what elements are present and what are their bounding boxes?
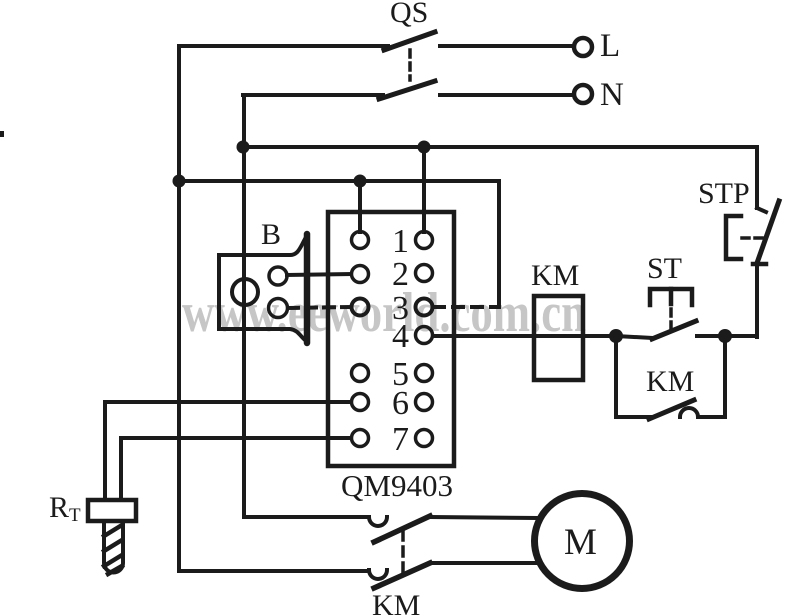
svg-text:QS: QS bbox=[390, 0, 428, 29]
pin 6 bbox=[352, 385, 433, 422]
pin 5 bbox=[352, 356, 433, 393]
contact KM auxiliary blade bbox=[649, 400, 694, 419]
node junction at 243,147 bbox=[237, 141, 250, 154]
wire pin 4 to node 616 through coil bbox=[433, 334, 616, 338]
transducer B horn bell bbox=[304, 234, 311, 343]
pushbutton STP blade bbox=[757, 201, 779, 263]
svg-text:7: 7 bbox=[392, 421, 409, 458]
svg-text:QM9403: QM9403 bbox=[341, 468, 453, 503]
svg-text:N: N bbox=[600, 77, 624, 113]
contact KM main upper fixed hook bbox=[369, 517, 387, 526]
wire pin 6 to thermistor bbox=[105, 402, 351, 500]
svg-text:KM: KM bbox=[372, 589, 420, 616]
wire N-phase from rail x243 to QS bbox=[243, 93, 383, 97]
pin 2 bbox=[352, 256, 433, 293]
contact KM auxiliary bridge arc bbox=[680, 408, 698, 417]
wire KM aux right side up to node725 bbox=[698, 336, 725, 417]
wire bus y181 from left rail to corner x499 bbox=[179, 181, 499, 305]
transducer B terminal circle lower bbox=[269, 299, 288, 318]
svg-text:2: 2 bbox=[392, 256, 409, 293]
pushbutton ST actuator bracket bbox=[650, 289, 692, 305]
pushbutton STP lower contact tick bbox=[753, 262, 766, 267]
wire top bus corner down to STP bbox=[755, 147, 759, 208]
contact KM main dashed link bbox=[401, 531, 405, 577]
wire top bus y147 to STP bbox=[243, 145, 757, 149]
wire STP lower to ST row bbox=[755, 264, 759, 337]
thermistor RT probe body bbox=[104, 521, 123, 573]
wire KM main lower to motor bbox=[430, 561, 537, 565]
speck left margin bbox=[0, 131, 4, 137]
wire L-phase top from left rail to QS bbox=[179, 44, 388, 48]
node junction at 725,336 bbox=[718, 329, 732, 343]
wire left rail bottom run to KM main lower pole bbox=[179, 569, 369, 573]
pushbutton ST blade bbox=[652, 321, 696, 339]
svg-text:KM: KM bbox=[646, 365, 694, 398]
IC U1 QM9403 box bbox=[328, 212, 454, 466]
wire pin 7 to thermistor bbox=[121, 438, 351, 500]
node junction at 179,181 bbox=[173, 175, 186, 188]
pin 7 bbox=[352, 421, 433, 458]
wire QS pole 1 to terminal L bbox=[440, 44, 572, 48]
terminal N circle bbox=[574, 85, 592, 103]
pushbutton STP dashed link bbox=[742, 236, 764, 240]
svg-text:B: B bbox=[261, 218, 281, 251]
wire ST right contact to STP bottom bbox=[697, 334, 757, 338]
contact KM main upper blade bbox=[374, 516, 430, 542]
wire QS pole 2 to terminal N bbox=[440, 93, 571, 97]
svg-text:KM: KM bbox=[531, 259, 579, 292]
pushbutton STP upper contact elbow bbox=[757, 208, 766, 212]
wire N rail vertical through B bbox=[242, 95, 246, 517]
wire node616 to ST left contact bbox=[616, 336, 653, 338]
transducer B body with horn bbox=[219, 239, 305, 340]
pin 3 bbox=[352, 290, 433, 327]
pushbutton ST dashed link bbox=[669, 309, 673, 330]
svg-text:ST: ST bbox=[647, 252, 682, 285]
pin 1 bbox=[352, 223, 433, 260]
svg-text:M: M bbox=[564, 522, 597, 563]
terminal L circle bbox=[574, 38, 592, 56]
wire node616 down for KM aux bbox=[616, 336, 650, 417]
switch QS pole 2 blade bbox=[379, 81, 435, 99]
svg-text:L: L bbox=[600, 28, 620, 64]
switch QS pole 1 blade bbox=[384, 32, 435, 50]
contactor coil KM box bbox=[534, 296, 583, 380]
wire N rail bottom run to KM main upper pole bbox=[244, 515, 369, 519]
svg-text:STP: STP bbox=[698, 177, 750, 210]
thermistor RT cap bbox=[88, 500, 136, 521]
wire KM main upper to motor bbox=[430, 517, 536, 518]
wire dashed pin3 right to x499 bbox=[434, 305, 499, 309]
node junction at 360,181 bbox=[354, 175, 367, 188]
svg-text:6: 6 bbox=[392, 385, 409, 422]
svg-text:4: 4 bbox=[392, 318, 409, 355]
transducer B terminal circle upper bbox=[269, 267, 287, 285]
svg-text:1: 1 bbox=[392, 223, 409, 260]
contact KM main lower fixed hook bbox=[369, 570, 387, 579]
pushbutton STP actuator bracket bbox=[726, 216, 741, 259]
node junction at 616,336 bbox=[609, 329, 623, 343]
node junction at 424,147 bbox=[418, 141, 431, 154]
QS gang dashed link bbox=[408, 50, 412, 80]
thermistor RT probe hatch bbox=[104, 525, 122, 574]
pushbutton ST actuator stem bbox=[669, 289, 674, 304]
wire drop to pin 1 right bbox=[422, 147, 426, 232]
transducer B terminal circle big bbox=[232, 279, 258, 305]
wire B upper terminal to pin 2 bbox=[287, 274, 351, 275]
contact KM main lower blade bbox=[374, 563, 430, 588]
wire drop to pin 1 left bbox=[358, 181, 362, 232]
wire dashed B lower terminal to pin 3 bbox=[288, 307, 351, 308]
wire left rail vertical bbox=[177, 46, 181, 571]
motor M circle bbox=[535, 494, 630, 589]
pin 4 bbox=[392, 318, 433, 355]
